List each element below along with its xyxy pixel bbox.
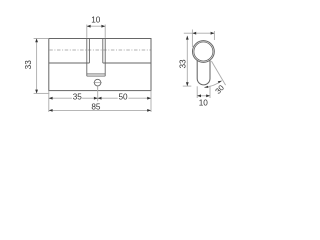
svg-text:35: 35: [73, 93, 83, 102]
svg-text:10: 10: [91, 15, 101, 24]
face view: profile body: [197, 60, 210, 84]
cam slot: [87, 39, 105, 77]
face view: 30 degree angular dimension: [204, 61, 225, 87]
svg-text:10: 10: [199, 98, 209, 107]
svg-text:50: 50: [118, 93, 128, 102]
cylinder body rectangle (side view): [49, 39, 151, 91]
dimension 50 (bottom row 1 right): [98, 97, 151, 99]
svg-text:33: 33: [178, 59, 187, 69]
dimension 35 (bottom row 1 left): [49, 97, 98, 99]
fixing screw hole: [93, 79, 101, 89]
face view: dimension 33: [183, 33, 193, 86]
plug centerline (dash-dot): [49, 49, 150, 51]
svg-text:33: 33: [24, 60, 33, 70]
housing junction line: [49, 62, 151, 64]
face view: cylinder profile circle: [193, 41, 215, 63]
dimension 33 (left, height): [34, 39, 50, 94]
bottom extension lines: [49, 86, 151, 112]
face view: diameter dimension (top): [192, 30, 214, 48]
face view: dimension 10 (body width): [197, 86, 210, 98]
svg-text:85: 85: [91, 102, 101, 111]
dimension 10 (top, cam width): [87, 25, 105, 38]
dimension 85 (bottom row 2): [49, 109, 151, 111]
